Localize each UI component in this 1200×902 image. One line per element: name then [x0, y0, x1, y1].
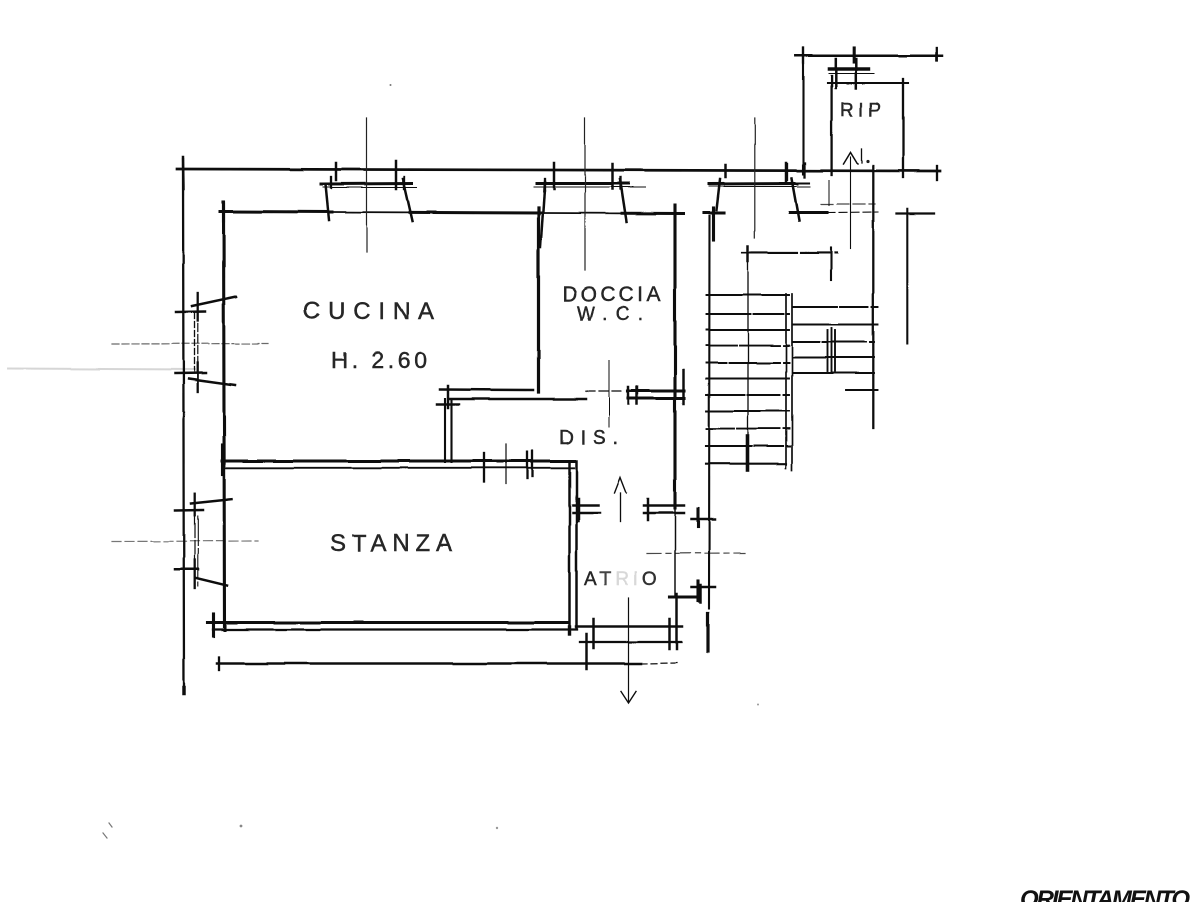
atrio bottom wall b [580, 641, 681, 643]
svg-text:DIS.: DIS. [559, 427, 622, 449]
entrance wall vertical [708, 216, 711, 608]
window L1 bottom diagonal [189, 379, 235, 386]
stairs centre line [747, 261, 749, 436]
wall end tick at corridor [682, 370, 685, 404]
stanza top wall door axis thin [505, 444, 507, 484]
stairwell top line [742, 251, 837, 253]
stanza right wall b [575, 461, 578, 628]
window W2 right jamb [620, 179, 627, 222]
atrio bottom tick b [585, 634, 588, 669]
window W3 left jamb [717, 180, 721, 211]
rip top tick mid [852, 48, 855, 62]
window L2 dashed jamb a [194, 516, 196, 587]
rip window bar [830, 67, 869, 71]
north mark dot [866, 160, 869, 163]
rip box top line [828, 82, 908, 84]
inner left wall top tick [222, 202, 225, 221]
stanza top wall tick mid [483, 453, 485, 482]
faint fold line left lower [112, 540, 258, 543]
tick on top line w2 left [553, 163, 556, 189]
tick on top line w1 right [395, 161, 398, 189]
stairs centre thick newel [746, 436, 750, 470]
rip bottom ticks on main line [786, 164, 788, 180]
upper flight tread 4 [793, 357, 874, 359]
stair right rail b [791, 294, 793, 470]
stair tread 7 [707, 394, 790, 396]
window W3 centre construction line [754, 118, 756, 238]
tick on top line rip left [804, 163, 806, 177]
stanza right wall a [568, 462, 571, 633]
svg-text:CUCINA: CUCINA [303, 298, 440, 325]
stanza bottom wall upper [208, 621, 568, 624]
window L2 lower tick [175, 568, 198, 571]
stair right rail a [785, 294, 787, 468]
atrio bottom tick c [668, 619, 671, 649]
faint fold line left upper [112, 343, 268, 346]
faint dashed line right of atrio [647, 552, 745, 555]
window W1 sill thick [321, 182, 412, 186]
window L1 dashed jamb a [194, 313, 196, 372]
stanza top wall lower [225, 467, 574, 469]
window W3 sill thin [709, 186, 810, 188]
top wall dashes to stair wall [827, 211, 878, 214]
window L2 bottom diagonal [196, 578, 227, 586]
stanza top wall left tick [221, 445, 224, 474]
stanza bottom wall lower [213, 628, 577, 630]
atrio bottom wall a [576, 625, 682, 628]
window W1 left jamb [326, 185, 330, 221]
atrio top wall right a [644, 504, 684, 507]
faint fold line far left [8, 369, 195, 370]
stairwell top tick left [747, 246, 750, 261]
window W2 sill thin [534, 186, 645, 188]
svg-text:ATRIO: ATRIO [584, 569, 661, 590]
window W1 sill tick right [403, 177, 405, 189]
faint dashed landing line [821, 203, 875, 205]
stair tread 9 [707, 428, 790, 430]
tick on top line rip right [936, 166, 938, 180]
rip window tick right [855, 59, 858, 88]
upper flight tread 1 [793, 306, 878, 308]
svg-text:RIP: RIP [840, 100, 887, 121]
window L1 lower tick [175, 372, 206, 375]
stair tread 1 [707, 294, 790, 296]
stair triple rail c [834, 330, 836, 371]
lowest boundary dashes [641, 662, 677, 665]
tick on top line w3 left [724, 165, 727, 177]
stair tread 11 [706, 463, 786, 465]
cucina bottom wall right tick a [627, 387, 630, 404]
atrio top wall left b [573, 512, 600, 515]
speck c [496, 827, 498, 829]
window W2 centre construction line [584, 118, 586, 270]
entrance door tick upper v [696, 509, 699, 527]
window L2 top diagonal [191, 499, 232, 503]
dis construction vline [608, 360, 610, 427]
atrio up arrow head [615, 478, 627, 494]
rip left outer wall [802, 48, 804, 174]
thin vert above stairs [828, 180, 830, 205]
stair triple rail b [831, 328, 833, 372]
stanza top wall upper [222, 460, 574, 463]
window W2 left jamb [541, 182, 546, 247]
speck d [103, 823, 112, 838]
window W3 sill thick [709, 182, 797, 186]
north arrow head [844, 153, 858, 165]
cucina bottom wall upper [440, 388, 533, 391]
wall tick right of doccia [712, 208, 715, 240]
stanza right wall bottom blob [568, 627, 571, 634]
stairwell right wall [872, 166, 874, 428]
atrio top wall left a [573, 504, 598, 507]
north mark l [861, 149, 863, 163]
window W1 centre construction line [366, 118, 368, 252]
entrance wall thick lower piece [706, 613, 709, 651]
window L1 top diagonal [192, 297, 236, 307]
tick on top line left end [182, 157, 185, 189]
dis jog wall a [444, 399, 446, 462]
cucina bottom wall right upper [628, 389, 684, 392]
svg-text:H. 2.60: H. 2.60 [331, 347, 429, 373]
cucina bottom wall left tick h [437, 403, 459, 406]
north arrow stem [850, 157, 852, 249]
upper flight tread 2 [793, 324, 878, 326]
window W1 sill tick left [330, 177, 332, 188]
stair tread 6 [707, 378, 790, 380]
upper flight tread 3 [793, 341, 874, 343]
inner left wall cucina+stanza [224, 204, 225, 630]
atrio bottom tick a [592, 619, 595, 648]
window W1 sill thin [323, 187, 417, 189]
dis jog wall b [450, 399, 452, 462]
cucina bottom wall right tick b [636, 387, 639, 404]
speck a [389, 84, 391, 86]
right stub wall vertical [906, 209, 908, 344]
atrio top wall tick right [647, 499, 650, 520]
rip window tick left [835, 59, 838, 88]
window W2 sill tick right [619, 177, 621, 189]
tick on top line w3 right [785, 163, 788, 181]
atrio down arrow stem [628, 598, 630, 701]
tick on top line w2 right [611, 164, 614, 189]
speck b [240, 825, 243, 828]
lowest boundary line [217, 662, 641, 665]
stanza bottom wall left tick [212, 614, 215, 636]
doccia right wall lower thin [674, 508, 676, 597]
window L1 dashed jamb b [197, 313, 199, 371]
stair tread 4 [707, 345, 790, 347]
atrio up arrow stem [620, 493, 622, 522]
stair tread 8 [707, 410, 790, 412]
cucina top wall [220, 210, 332, 214]
atrio bottom tick d [675, 594, 678, 649]
cucina bottom wall lower [450, 398, 586, 401]
rip box left wall [830, 76, 832, 175]
atrio top wall right b [644, 512, 684, 515]
window L2 dashed jamb b [197, 516, 199, 586]
doccia left wall [537, 208, 540, 392]
upper flight tread 5 [793, 372, 874, 374]
upper flight landing edge [846, 389, 878, 391]
svg-text:ORIENTAMENTO: ORIENTAMENTO [1020, 886, 1190, 902]
entrance door tick lower v [696, 581, 699, 601]
stair tread 2 [707, 313, 790, 315]
rip top line [796, 55, 942, 58]
entrance corner h [670, 595, 700, 598]
window W3 sill tick extension [780, 182, 809, 184]
cucina bottom wall dashes in door gap [586, 390, 624, 392]
cucina bottom wall right lower [628, 397, 684, 400]
svg-text:DOCCIA: DOCCIA [562, 283, 665, 306]
window W2 sill tick left [544, 179, 546, 190]
outer left wall [183, 159, 184, 693]
top boundary long line [177, 169, 940, 171]
atrio down arrow head [621, 691, 636, 703]
stair triple rail a [827, 330, 829, 371]
rip top tick left [802, 48, 804, 63]
stair tread 10 [706, 445, 790, 447]
rip top tick right [936, 48, 938, 61]
svg-text:STANZA: STANZA [330, 530, 457, 557]
rip window thin line [829, 73, 874, 75]
window L1 upper tick [176, 310, 205, 313]
stanza top wall tick pair a [526, 452, 528, 478]
stanza top wall tick pair b [531, 451, 533, 476]
right stub wall tick [897, 212, 935, 214]
rip box right wall [902, 79, 904, 177]
stair tread 3 [707, 329, 790, 331]
doccia right wall upper [673, 205, 676, 508]
outer left wall bottom blob [182, 688, 186, 694]
svg-text:W.C.: W.C. [577, 304, 645, 325]
top wall segment right of window3 [790, 211, 827, 214]
tick on top line w1 left [335, 163, 338, 180]
window W1 right jamb [403, 179, 413, 221]
window W2 sill thick [537, 182, 628, 185]
entrance door tick lower h [692, 586, 716, 589]
cucina top wall segment right of doccia [704, 211, 724, 214]
window L2 upper tick [175, 509, 203, 512]
atrio top wall tick left [577, 499, 580, 521]
window W3 right jamb [792, 179, 800, 221]
stair tread 5 [707, 362, 790, 364]
entrance corner v [699, 585, 702, 602]
entrance door tick upper h [692, 518, 716, 521]
cucina bottom wall left tick v [447, 386, 450, 408]
speck e [757, 704, 759, 706]
stairwell top tick right [830, 248, 832, 281]
lowest boundary left tick [218, 657, 220, 670]
